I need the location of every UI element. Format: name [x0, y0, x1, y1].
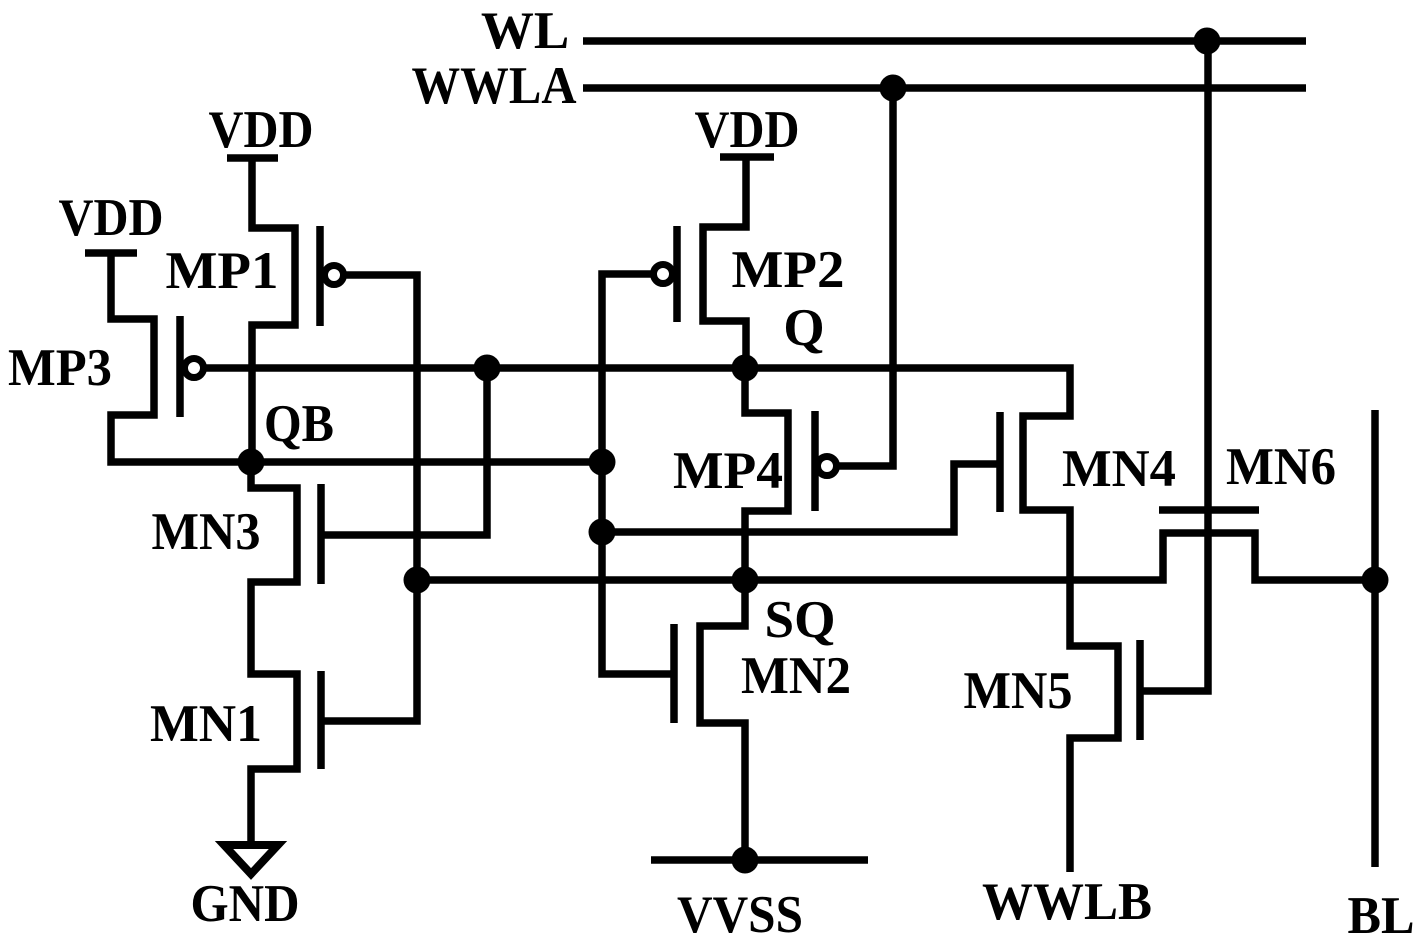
transistor MN3 gate bar: [317, 484, 325, 584]
transistor MN2 gate bar: [670, 624, 678, 723]
wire MP1 gate lead down to MN1 gate lead: [321, 275, 417, 721]
svg-text:BL: BL: [1348, 887, 1415, 945]
wire Q row down to MN3 gate lead: [321, 368, 487, 535]
junction dot on Q row at x=487: [474, 355, 501, 382]
wire WL horizontal line: [583, 37, 1306, 45]
junction dot node QB at MP1 drain: [238, 449, 265, 476]
transistor MP3 source-channel-drain path and QB row: [111, 253, 602, 462]
svg-text:WWLB: WWLB: [982, 873, 1152, 931]
transistor MP2 gate bar: [673, 226, 681, 322]
svg-text:MP4: MP4: [673, 442, 783, 500]
wire MN4 gate lead to QB feed row: [602, 464, 1000, 532]
transistor MN2 source-channel-drain path down to VVSS: [700, 580, 745, 862]
svg-text:MP3: MP3: [8, 339, 112, 397]
wire MP2 gate down through QB node to MN2 gate lead: [602, 274, 674, 674]
transistor MP1 source-channel-drain path: [252, 158, 295, 462]
wire WWLA horizontal line: [583, 84, 1306, 92]
power VDD rail of MP1: [227, 154, 278, 162]
transistor MP2 gate bubble: [654, 265, 673, 284]
svg-text:MN3: MN3: [152, 503, 261, 561]
junction dot node Q at MP2 drain: [732, 355, 759, 382]
transistor MP1 gate bar: [316, 226, 324, 326]
junction dot on WWLA at x=893: [880, 75, 907, 102]
svg-text:MN2: MN2: [741, 647, 851, 705]
transistor MN4 gate bar: [996, 412, 1004, 512]
svg-text:VVSS: VVSS: [677, 886, 803, 944]
transistor MP3 gate bar: [176, 316, 184, 417]
power VDD rail of MP3: [85, 249, 137, 257]
junction dot SQ at MP1/MN1 gate line: [404, 567, 431, 594]
svg-text:VDD: VDD: [695, 101, 800, 159]
svg-text:MN4: MN4: [1062, 440, 1176, 498]
transistor MP3 gate bubble: [185, 359, 204, 378]
junction dot MN4 gate feed: [589, 519, 616, 546]
wire left stack MN3 source, MN3 channel, MN1 channel, down to GND: [251, 462, 297, 845]
svg-text:WWLA: WWLA: [412, 57, 577, 115]
power VVSS rail: [651, 856, 868, 864]
power VDD rail of MP2: [720, 153, 774, 161]
wire node Q row from MP3 gate to MN4, then MN4 channel and MN5 channel down to WWLB: [194, 368, 1118, 872]
junction dot on BL: [1362, 567, 1389, 594]
svg-text:SQ: SQ: [765, 591, 836, 649]
svg-text:VDD: VDD: [59, 189, 164, 247]
junction dot at VVSS: [732, 847, 759, 874]
wire BL vertical line: [1371, 410, 1379, 867]
ground GND symbol triangle: [224, 845, 278, 874]
svg-text:VDD: VDD: [209, 101, 314, 159]
wire WWLA down to MP4 gate: [827, 88, 893, 466]
svg-text:MP2: MP2: [732, 241, 845, 299]
junction dot QB row right end: [589, 449, 616, 476]
wire WL down to MN6 gate and MN5 gate lead: [1140, 41, 1208, 691]
transistor MP4 gate bubble: [818, 457, 837, 476]
svg-text:QB: QB: [264, 395, 334, 453]
junction dot on WL at x=1207: [1194, 28, 1221, 55]
transistor MN1 gate bar: [317, 671, 325, 769]
svg-text:Q: Q: [783, 299, 824, 357]
wire node SQ row through MN6 channel to BL: [417, 533, 1375, 580]
svg-text:MN1: MN1: [150, 695, 262, 753]
junction dot SQ at MP4/MN2 drain: [732, 567, 759, 594]
svg-text:MN5: MN5: [964, 662, 1073, 720]
transistor MP4 source-channel-drain path: [745, 368, 788, 580]
transistor MP1 gate bubble: [325, 266, 344, 285]
svg-text:MN6: MN6: [1226, 438, 1336, 496]
transistor MP4 gate bar: [811, 411, 819, 511]
transistor MN6 gate bar (horizontal): [1159, 506, 1259, 514]
svg-text:GND: GND: [191, 875, 300, 933]
svg-text:WL: WL: [481, 2, 569, 60]
transistor MP2 source-channel-drain path: [703, 157, 746, 368]
transistor MN5 gate bar: [1136, 640, 1144, 740]
svg-text:MP1: MP1: [166, 242, 279, 300]
